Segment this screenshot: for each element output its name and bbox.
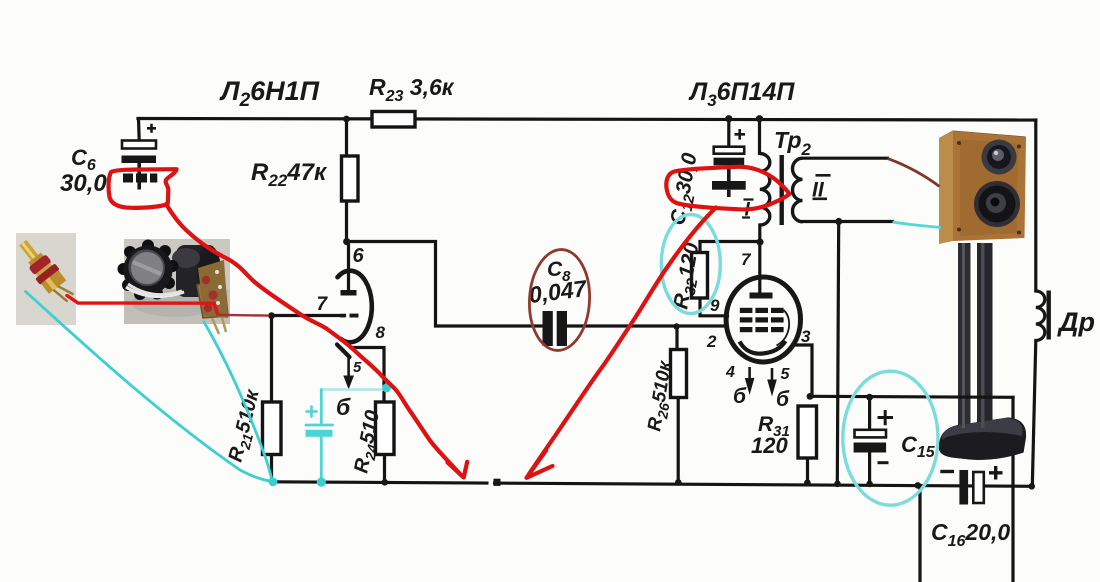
svg-text:б: б xyxy=(336,394,351,420)
svg-text:2: 2 xyxy=(706,332,717,351)
svg-text:Др: Др xyxy=(1057,307,1095,337)
svg-text:R2247к: R2247к xyxy=(251,159,328,190)
svg-text:4: 4 xyxy=(725,364,735,381)
svg-text:5: 5 xyxy=(353,359,362,376)
svg-text:30,0: 30,0 xyxy=(60,170,107,197)
svg-text:7: 7 xyxy=(741,250,752,269)
svg-text:б: б xyxy=(733,385,747,408)
svg-text:б: б xyxy=(776,388,790,411)
svg-text:Л36П14П: Л36П14П xyxy=(688,78,795,110)
svg-text:6: 6 xyxy=(353,245,365,267)
svg-text:3: 3 xyxy=(801,327,811,346)
svg-text:8: 8 xyxy=(376,323,386,342)
svg-text:120: 120 xyxy=(751,433,788,458)
svg-text:5: 5 xyxy=(781,366,791,383)
svg-text:Л26Н1П: Л26Н1П xyxy=(219,76,320,111)
svg-text:7: 7 xyxy=(317,294,329,315)
